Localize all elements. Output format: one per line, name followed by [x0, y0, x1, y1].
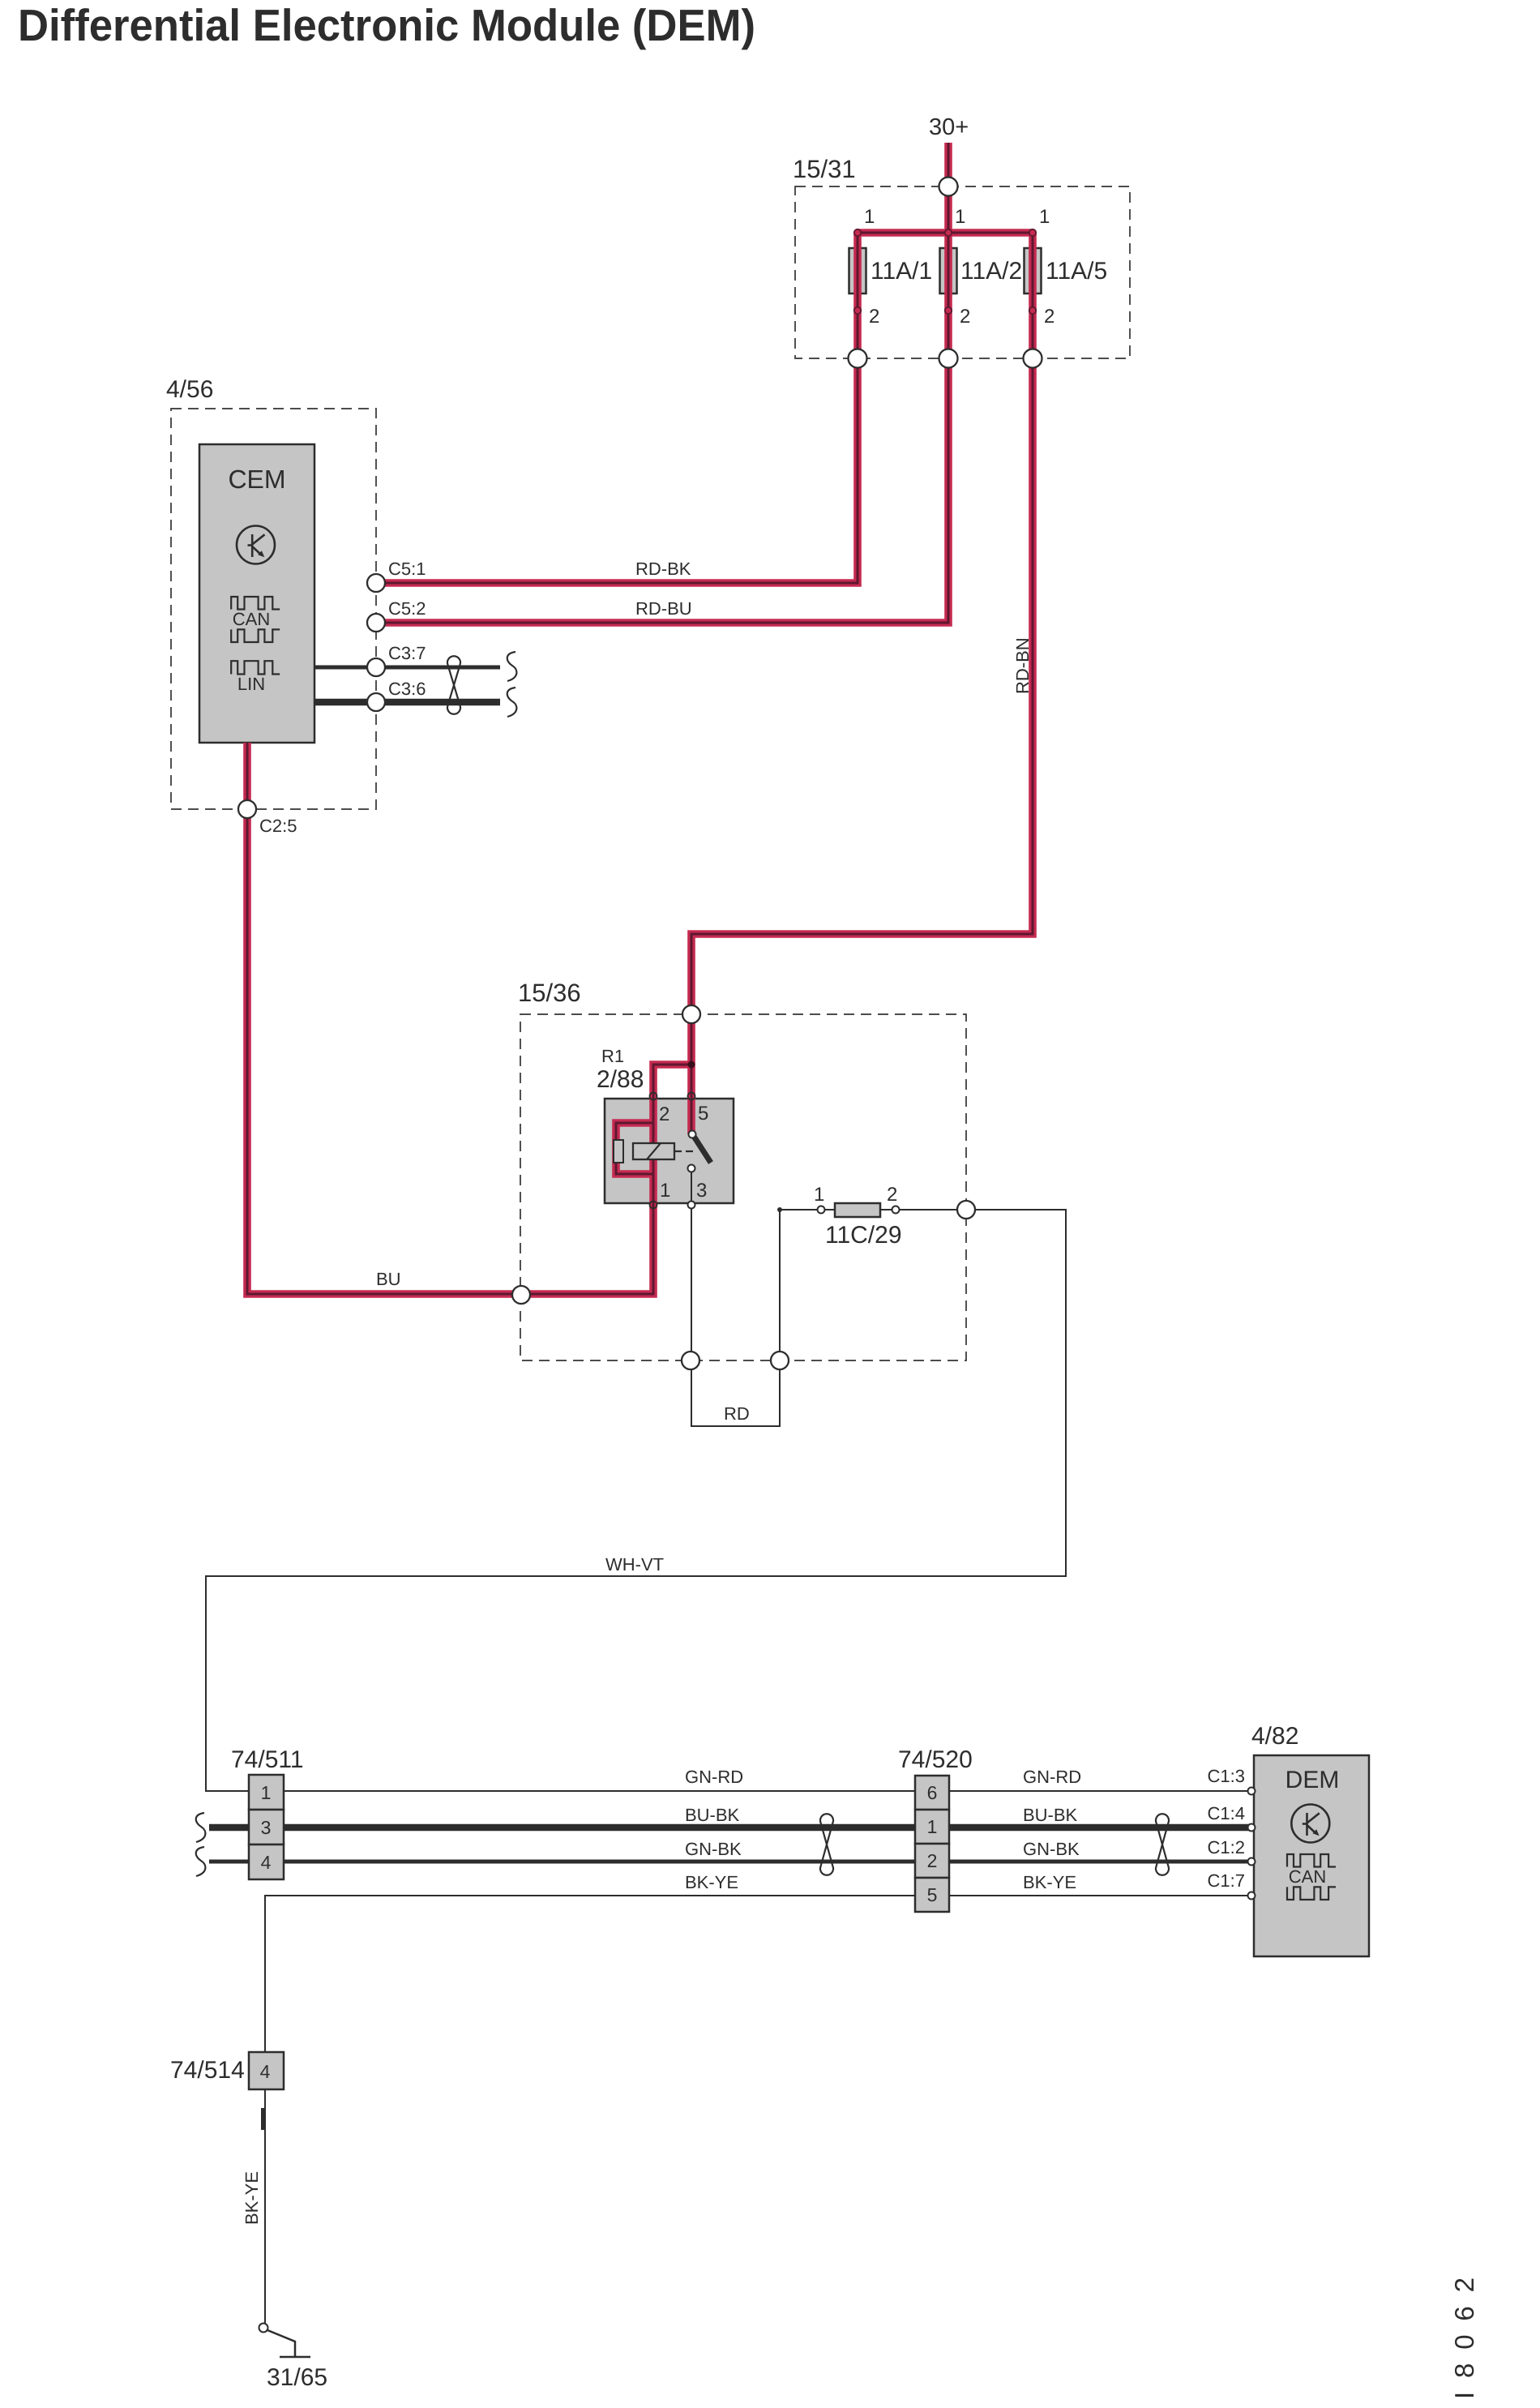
svg-text:4: 4: [260, 2061, 271, 2082]
transistor icon CEM: [237, 526, 275, 564]
pin DEM C1:3: [1248, 1788, 1256, 1795]
svg-text:74/514: 74/514: [170, 2057, 245, 2084]
svg-text:2: 2: [960, 306, 970, 328]
pin 3 relay: [688, 1202, 695, 1209]
wire CEM C2:5 BU to relay pin 1 band: [247, 743, 691, 1294]
node fuse 11A/1 out: [849, 349, 867, 368]
twisted pair mark C3: [447, 656, 460, 714]
svg-text:2/88: 2/88: [597, 1066, 644, 1093]
wire break C3:6: [507, 688, 517, 717]
pin 1 relay: [650, 1202, 657, 1209]
svg-text:GN-RD: GN-RD: [685, 1767, 743, 1787]
connector 74/520 pin 1: [915, 1810, 949, 1844]
connector 74/520 pin 2: [915, 1844, 949, 1878]
svg-text:RD: RD: [724, 1403, 750, 1424]
svg-text:4: 4: [261, 1852, 272, 1873]
twisted pair mark harness left: [820, 1814, 833, 1875]
svg-text:1: 1: [1039, 206, 1050, 228]
svg-text:1: 1: [927, 1816, 938, 1837]
wire relay coil loop band: [616, 1123, 653, 1174]
relay contact 3: [688, 1165, 695, 1172]
junction RD-BN branch: [688, 1061, 695, 1069]
wire break C3:7: [507, 652, 517, 681]
junction fuse bus 11A/5 pin1: [1029, 229, 1036, 236]
fuse 11C/29 body: [835, 1203, 880, 1217]
svg-text:1: 1: [660, 1180, 670, 1202]
connector 74/511 pin 4: [249, 1845, 284, 1879]
svg-text:BU-BK: BU-BK: [685, 1805, 740, 1825]
svg-text:BK-YE: BK-YE: [685, 1872, 738, 1892]
node BU into 15/36: [512, 1286, 530, 1304]
fuse 11A/1 body: [849, 248, 866, 294]
node CEM C5:2: [367, 614, 385, 632]
svg-text:WH-VT: WH-VT: [605, 1554, 664, 1575]
svg-text:GN-BK: GN-BK: [685, 1839, 742, 1859]
svg-text:74/520: 74/520: [898, 1746, 973, 1773]
wire 30+ trunk through fuse 11A/2 to CEM C5:2 RD-BU core: [376, 143, 948, 623]
node WH-VT out of 15/36: [957, 1201, 975, 1219]
svg-text:DEM: DEM: [1285, 1767, 1340, 1793]
svg-text:3: 3: [261, 1817, 272, 1838]
svg-text:C1:3: C1:3: [1208, 1766, 1245, 1786]
wire fuse 11C/29 to WH-VT: [780, 1209, 1066, 1210]
junction fuse bus 11A/1 pin1: [854, 229, 861, 236]
wire fuse 11A/1 to CEM C5:1 RD-BK core: [376, 233, 858, 583]
CEM 4/56 dashed outline: [171, 409, 376, 809]
relay switch arm: [693, 1135, 711, 1163]
svg-text:Differential Electronic Module: Differential Electronic Module (DEM): [18, 0, 755, 50]
svg-text:5: 5: [927, 1884, 938, 1905]
relay contact 5: [689, 1131, 696, 1138]
svg-text:2: 2: [869, 306, 879, 328]
svg-text:RD-BU: RD-BU: [635, 598, 692, 619]
ground 31/65: [259, 2324, 268, 2333]
fuse 11A/2 body: [940, 248, 957, 294]
wire BU-BK row: [209, 1824, 1250, 1832]
svg-text:CAN: CAN: [233, 609, 270, 629]
svg-text:C3:7: C3:7: [388, 643, 426, 663]
wire RD-BN from fuse 11A/5 to relay pin 5 band: [691, 233, 1033, 1134]
svg-text:1: 1: [814, 1184, 824, 1206]
wire 30+ trunk through fuse 11A/2 to CEM C5:2 RD-BU band: [376, 143, 948, 623]
relay coil body: [633, 1143, 674, 1159]
node 11C/29 feed out of 15/36: [771, 1352, 789, 1369]
wire break GN-BK left: [196, 1847, 206, 1876]
node fuse 11A/5 out: [1024, 349, 1042, 368]
CAN icon DEM: [1287, 1854, 1336, 1867]
svg-text:BU: BU: [376, 1269, 401, 1289]
pin 2 relay: [650, 1093, 657, 1100]
connector 74/520 pin 5: [915, 1878, 949, 1912]
node CEM C5:1: [367, 574, 385, 592]
svg-text:11A/5: 11A/5: [1046, 258, 1107, 285]
node relay pin3 out of 15/36: [682, 1352, 699, 1369]
wire CEM C3:7 LIN: [314, 666, 500, 670]
svg-text:31/65: 31/65: [267, 2364, 327, 2391]
svg-text:11A/1: 11A/1: [871, 258, 932, 285]
svg-text:C1:4: C1:4: [1208, 1803, 1245, 1823]
connector 74/511 pin 1: [249, 1775, 284, 1810]
svg-text:C1:7: C1:7: [1208, 1870, 1245, 1891]
svg-text:4/56: 4/56: [166, 376, 213, 403]
wire fuse bus pin 1 band: [858, 229, 1033, 237]
pin 5 relay: [688, 1093, 695, 1100]
fusebox 15/31 dashed outline: [795, 186, 1130, 358]
wire CEM C3:6 LIN: [314, 699, 500, 706]
wire relay pin 3 to RD jumper to fuse 11C/29: [691, 1172, 780, 1426]
wire 74/514 pin 4 to ground: [264, 2089, 266, 2324]
svg-text:5: 5: [698, 1103, 708, 1125]
fuse 11A/5 body: [1025, 248, 1042, 294]
svg-text:BK-YE: BK-YE: [242, 2171, 262, 2225]
relay resistor body: [614, 1140, 623, 1163]
svg-text:BU-BK: BU-BK: [1023, 1805, 1078, 1825]
svg-text:15/36: 15/36: [518, 979, 581, 1007]
svg-text:C1:2: C1:2: [1208, 1837, 1245, 1857]
wire break BU-BK left: [196, 1813, 206, 1842]
node relay box feed: [682, 1005, 700, 1023]
wire RD-BN from fuse 11A/5 to relay pin 5 core: [691, 233, 1033, 1134]
svg-text:1: 1: [864, 206, 875, 228]
svg-text:2: 2: [927, 1850, 938, 1871]
pin DEM C1:2: [1248, 1858, 1256, 1866]
svg-text:6: 6: [927, 1782, 938, 1803]
relay R1 2/88 gray body: [605, 1099, 734, 1203]
CAN icon CEM: [231, 597, 280, 610]
svg-text:RD-BN: RD-BN: [1012, 637, 1033, 694]
LIN icon CEM: [231, 661, 280, 674]
node CEM C3:7: [367, 658, 385, 676]
svg-text:RD-BK: RD-BK: [635, 559, 691, 579]
svg-text:GN-RD: GN-RD: [1023, 1767, 1081, 1787]
svg-text:C3:6: C3:6: [388, 679, 426, 699]
svg-text:1: 1: [261, 1782, 272, 1803]
junction fuse bus 11A/2 pin1: [945, 229, 952, 236]
junction 11C/29 feed: [777, 1207, 782, 1212]
svg-text:11A/2: 11A/2: [960, 258, 1022, 285]
svg-text:CAN: CAN: [1289, 1866, 1326, 1887]
svg-text:3: 3: [696, 1180, 707, 1202]
wire GN-BK row: [209, 1860, 1250, 1864]
pin 2 fuse 11C/29: [892, 1206, 900, 1214]
ECU CEM 4/56 gray body: [199, 444, 314, 743]
wire fuse bus pin 1 core: [858, 232, 1033, 234]
node 30+ entry: [939, 178, 958, 196]
transistor icon DEM: [1291, 1805, 1329, 1843]
svg-text:BK-YE: BK-YE: [1023, 1872, 1076, 1892]
svg-text:30+: 30+: [929, 114, 969, 140]
connector 74/514 pin 4: [249, 2052, 284, 2089]
svg-text:CEM: CEM: [228, 465, 285, 494]
connector 74/520 pin 6: [915, 1776, 949, 1810]
svg-text:2: 2: [887, 1184, 897, 1206]
node CEM C2:5: [238, 800, 256, 818]
splice mark on BK-YE: [261, 2108, 265, 2130]
svg-text:2: 2: [1044, 306, 1054, 328]
svg-text:C5:1: C5:1: [388, 559, 426, 579]
svg-text:1: 1: [955, 206, 965, 228]
svg-text:74/511: 74/511: [231, 1746, 304, 1773]
pin 2 fuse 11A/5: [1029, 307, 1036, 314]
wire WH-VT to connector 74/511 pin 1: [206, 1210, 1066, 1791]
svg-text:LIN: LIN: [237, 674, 265, 694]
pin 2 fuse 11A/1: [854, 307, 861, 314]
pin DEM C1:7: [1248, 1892, 1256, 1900]
svg-text:15/31: 15/31: [793, 155, 856, 183]
connector 74/511 pin 3: [249, 1810, 284, 1845]
wire CEM C2:5 BU to relay pin 1 core: [247, 743, 691, 1294]
relay actuation dashed link: [674, 1150, 697, 1152]
svg-text:11C/29: 11C/29: [825, 1222, 902, 1249]
wire fuse 11A/1 to CEM C5:1 RD-BK band: [376, 233, 858, 583]
pin 2 fuse 11A/2: [945, 307, 952, 314]
ECU DEM 4/82 gray body: [1254, 1755, 1369, 1956]
svg-text:4/82: 4/82: [1251, 1723, 1298, 1750]
svg-text:C2:5: C2:5: [259, 816, 297, 836]
wire relay coil loop core: [616, 1123, 653, 1174]
node fuse 11A/2 out: [939, 349, 958, 368]
twisted pair mark harness right: [1156, 1814, 1169, 1875]
node CEM C3:6: [367, 693, 385, 711]
svg-text:GN-BK: GN-BK: [1023, 1839, 1080, 1859]
wire BK-YE row: [265, 1896, 1250, 2052]
relay box 15/36 dashed outline: [520, 1014, 966, 1360]
pin DEM C1:4: [1248, 1824, 1256, 1832]
wire GN-RD row: [284, 1790, 1250, 1792]
pin 1 fuse 11C/29: [818, 1206, 825, 1214]
svg-text:C5:2: C5:2: [388, 598, 426, 619]
svg-text:R1: R1: [601, 1046, 624, 1066]
svg-text:2: 2: [659, 1103, 669, 1125]
